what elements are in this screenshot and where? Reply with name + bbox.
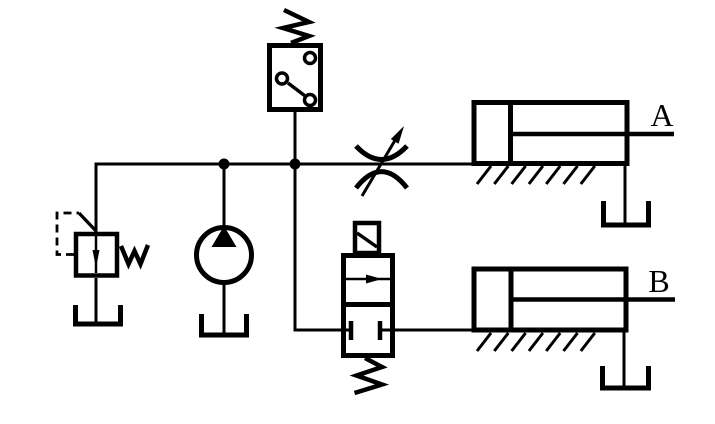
- throttle valve adjust arrow: [362, 126, 404, 196]
- wire: riser to valve inlet: [294, 329, 352, 332]
- cylinder A piston: [508, 103, 513, 164]
- cylinder A body: [474, 103, 627, 164]
- relief valve body: [76, 234, 117, 276]
- cylinder B rod: [511, 297, 675, 302]
- wire: left riser to relief valve: [95, 163, 98, 233]
- directional valve flow arrow (top position): [345, 275, 391, 284]
- svg-text:B: B: [648, 263, 669, 299]
- cylinder B mounting hatch: [477, 333, 595, 351]
- tank T1 (relief valve): [76, 305, 121, 324]
- relief valve pilot diagonal: [79, 213, 96, 231]
- directional valve body: [344, 256, 393, 356]
- node J2 (branch junction): [290, 159, 301, 170]
- pressure switch contacts: [277, 53, 316, 106]
- directional valve blocked ports (bottom position): [351, 321, 380, 340]
- wire: relief valve to tank: [95, 278, 98, 324]
- svg-text:A: A: [650, 97, 673, 133]
- cylinder B body: [474, 269, 626, 330]
- tank T2 (pump): [202, 314, 247, 335]
- pressure switch body: [270, 46, 321, 110]
- throttle valve top arc: [356, 146, 407, 160]
- tank T4 (cylinder B): [603, 366, 649, 388]
- pressure switch spring: [283, 10, 309, 43]
- wire: valve outlet to cylinder B: [380, 329, 474, 332]
- wire: cylinder A drain: [624, 166, 627, 225]
- node J1 (pump junction): [219, 159, 230, 170]
- solenoid Y1: [355, 223, 379, 253]
- tank T3 (cylinder A): [604, 201, 649, 225]
- throttle valve bottom arc: [356, 172, 407, 188]
- cylinder B piston: [509, 269, 514, 330]
- cylinder A rod: [511, 132, 675, 137]
- relief valve flow arrow: [93, 236, 100, 273]
- wire: main pressure line: [96, 163, 474, 166]
- wire: branch riser down: [294, 164, 297, 330]
- cylinder A mounting hatch: [477, 166, 595, 184]
- relief valve spring: [121, 245, 148, 264]
- wire: cylinder B drain: [623, 333, 626, 389]
- directional valve divider: [344, 302, 393, 307]
- relief valve pilot line (dashed): [57, 213, 79, 255]
- wire: pump to main line: [223, 164, 226, 229]
- wire: pump suction to tank: [223, 282, 226, 335]
- wire: pressure switch to junction: [294, 112, 297, 164]
- directional valve spring: [355, 358, 383, 393]
- pump P1: [197, 226, 252, 283]
